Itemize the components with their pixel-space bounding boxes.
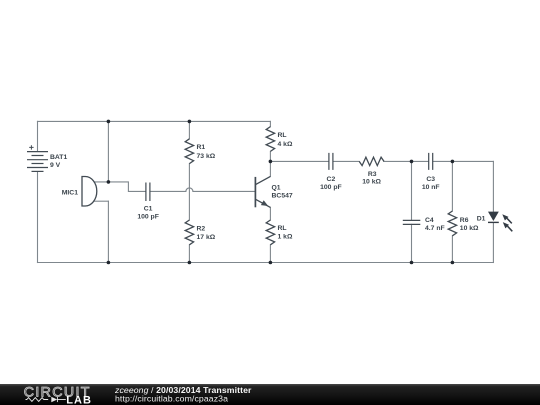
svg-text:C3: C3 xyxy=(426,176,435,183)
svg-text:BC547: BC547 xyxy=(272,193,293,200)
svg-text:73 kΩ: 73 kΩ xyxy=(197,153,216,160)
svg-text:C1: C1 xyxy=(144,206,153,213)
svg-text:100 pF: 100 pF xyxy=(137,214,159,221)
svg-text:LAB: LAB xyxy=(66,395,92,405)
svg-text:10 kΩ: 10 kΩ xyxy=(460,225,479,232)
svg-text:100 pF: 100 pF xyxy=(320,184,342,191)
svg-text:4 kΩ: 4 kΩ xyxy=(278,141,293,148)
svg-text:RL: RL xyxy=(278,225,287,232)
svg-text:R6: R6 xyxy=(460,217,469,224)
svg-text:R1: R1 xyxy=(197,144,206,151)
svg-text:D1: D1 xyxy=(477,215,486,222)
svg-text:C2: C2 xyxy=(327,176,336,183)
svg-text:1 kΩ: 1 kΩ xyxy=(278,233,293,240)
svg-text:Q1: Q1 xyxy=(272,184,281,191)
svg-text:4.7 nF: 4.7 nF xyxy=(425,225,445,232)
svg-text:17 kΩ: 17 kΩ xyxy=(197,234,216,241)
svg-text:9 V: 9 V xyxy=(50,162,61,169)
svg-text:10 nF: 10 nF xyxy=(422,184,440,191)
svg-text:R3: R3 xyxy=(368,171,377,178)
svg-text:R2: R2 xyxy=(197,225,206,232)
svg-text:BAT1: BAT1 xyxy=(50,154,67,161)
svg-text:10 kΩ: 10 kΩ xyxy=(362,179,381,186)
svg-text:MIC1: MIC1 xyxy=(62,190,78,197)
svg-text:C4: C4 xyxy=(425,217,434,224)
svg-text:http://circuitlab.com/cpaaz3a: http://circuitlab.com/cpaaz3a xyxy=(115,393,228,403)
svg-text:RL: RL xyxy=(278,132,287,139)
